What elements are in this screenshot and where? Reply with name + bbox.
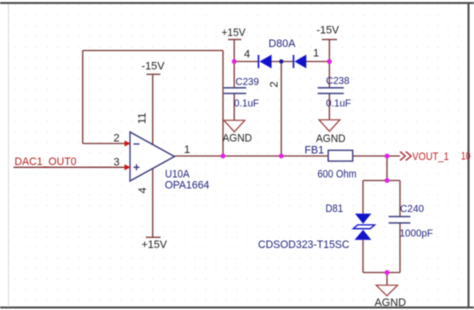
svg-text:11: 11 — [137, 113, 149, 124]
wire: feedback loop right vertical (output to top) — [222, 51, 224, 157]
wire: op-amp pin 4 stem to +15V bar — [152, 169, 154, 238]
junction: D80A pin 2 on output net — [279, 154, 284, 159]
svg-text:AGND: AGND — [223, 133, 253, 145]
junction: D81/C240 top rail — [385, 178, 390, 183]
wire: op-amp output pin 1 to FB1 — [175, 155, 329, 157]
power +15V for op-amp pin 4 — [142, 237, 168, 251]
svg-text:OPA1664: OPA1664 — [165, 180, 210, 192]
wire: feedback into pin 2 — [83, 143, 130, 145]
sheet frame lines (top, bottom, right dark; left faint) — [0, 2, 474, 4]
junction: D81/C240 bottom rail — [385, 270, 390, 275]
pin 3 entry arrow — [125, 164, 131, 170]
wire: TVS loop bottom rail — [363, 272, 400, 274]
svg-text:AGND: AGND — [375, 297, 407, 309]
svg-text:+15V: +15V — [142, 239, 168, 251]
wire: D81 branch lower vertical — [362, 240, 364, 273]
wire: D80A pin 2 vertical to output net — [280, 62, 282, 157]
svg-text:-15V: -15V — [142, 61, 166, 73]
svg-text:-15V: -15V — [317, 25, 340, 37]
svg-text:4: 4 — [137, 187, 149, 193]
wire: +15V stem through junction to C239 — [233, 40, 235, 88]
pin 2 entry arrow — [125, 141, 131, 147]
wire: -15V stem through junction to C238 — [328, 40, 330, 88]
capacitor C238 — [318, 75, 351, 110]
svg-text:D81: D81 — [326, 203, 344, 215]
wire: DAC1_OUT0 input to pin 3 — [14, 166, 131, 168]
svg-text:AGND: AGND — [316, 133, 346, 145]
junction: -15V / D80A pin 1 / C238 node — [327, 59, 332, 64]
wire: op-amp power line inside triangle — [152, 144, 154, 169]
svg-text:C239: C239 — [236, 76, 260, 88]
wire: D80A center segments — [272, 61, 294, 63]
capacitor C240 — [389, 203, 433, 240]
wire: D80A pin1 to -15V junction — [306, 61, 329, 63]
svg-text:1000pF: 1000pF — [400, 228, 434, 240]
svg-text:C238: C238 — [326, 75, 350, 87]
power -15V for op-amp pin 11 — [142, 61, 166, 75]
svg-text:1: 1 — [184, 144, 190, 156]
svg-text:1: 1 — [313, 48, 319, 60]
svg-text:C240: C240 — [400, 203, 424, 215]
svg-text:+15V: +15V — [222, 27, 247, 39]
power +15V above C239 — [222, 27, 247, 40]
junction: +15V / D80A pin 4 / C239 node — [232, 59, 237, 64]
wire: bottom junction to AGND — [386, 273, 388, 286]
svg-text:2: 2 — [114, 133, 120, 145]
wire: C238 bottom to AGND — [328, 94, 330, 120]
junction: feedback tap on output net — [221, 154, 226, 159]
svg-text:2: 2 — [269, 81, 281, 87]
ferrite bead FB1 — [305, 145, 357, 181]
center junction dot — [279, 59, 283, 63]
svg-text:U10A: U10A — [165, 169, 190, 181]
capacitor C239 — [224, 76, 259, 110]
wire: C240 branch upper vertical — [399, 181, 401, 217]
wire: TVS loop top rail — [363, 180, 400, 182]
AGND below C238 — [316, 120, 346, 145]
wire: FB1 to output port — [353, 155, 400, 157]
wire: C239 bottom to AGND — [233, 94, 235, 121]
wire: feedback loop top horizontal — [83, 50, 223, 52]
svg-text:0.1uF: 0.1uF — [326, 98, 351, 110]
svg-text:0.1uF: 0.1uF — [234, 98, 259, 110]
dual diode D80A — [244, 38, 319, 88]
wire: op-amp pin 11 stem from -15V bar — [152, 74, 154, 144]
svg-text:VOUT_1: VOUT_1 — [412, 151, 449, 163]
svg-text:4: 4 — [244, 49, 250, 61]
TVS diode D81 — [258, 203, 375, 251]
AGND at bottom — [375, 285, 407, 309]
wire: D81 branch upper vertical — [362, 181, 364, 214]
left diode — [258, 55, 260, 68]
svg-text:3: 3 — [114, 157, 120, 169]
wire: C240 branch lower vertical — [399, 223, 401, 273]
svg-text:600 Ohm: 600 Ohm — [318, 169, 357, 181]
wire: output junction down to TVS loop — [386, 156, 388, 181]
right diode — [293, 55, 295, 68]
svg-text:CDSOD323-T15SC: CDSOD323-T15SC — [258, 239, 350, 251]
svg-text:DAC1_OUT0: DAC1_OUT0 — [15, 156, 77, 168]
AGND below C239 — [223, 120, 253, 144]
svg-text:10: 10 — [461, 151, 471, 163]
output port VOUT_1 — [400, 151, 471, 164]
svg-text:FB1: FB1 — [305, 145, 325, 157]
power -15V above C238 — [317, 25, 340, 40]
wire: feedback loop left vertical — [82, 51, 84, 144]
junction: VOUT_1 node after FB1 — [385, 154, 390, 159]
op-amp U10A — [114, 113, 210, 194]
wire: D80A pin 4 wire — [234, 61, 258, 63]
svg-text:D80A: D80A — [269, 38, 297, 50]
